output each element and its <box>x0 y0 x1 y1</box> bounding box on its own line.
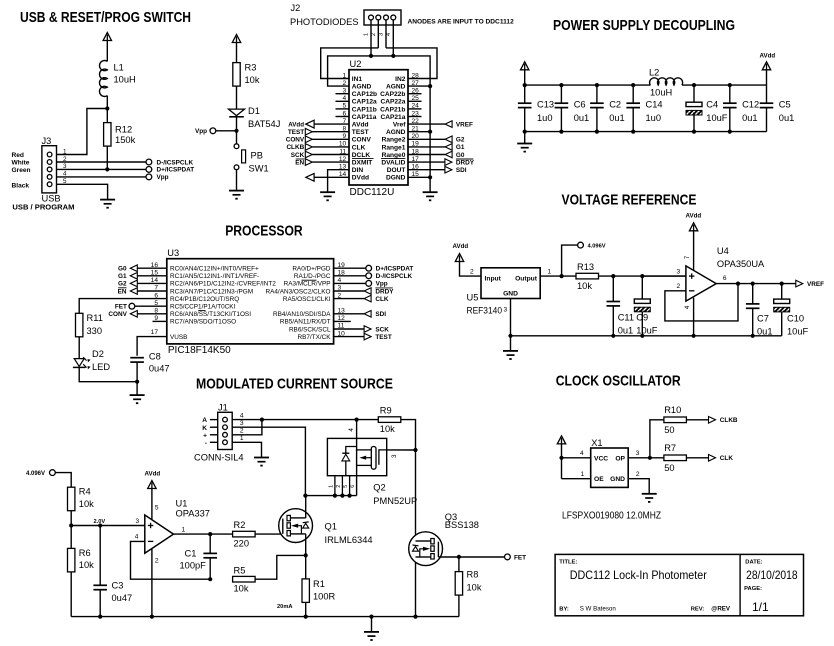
svg-text:USB & RESET/PROG SWITCH: USB & RESET/PROG SWITCH <box>20 9 191 26</box>
wire Q3 gate to FET terminal <box>438 556 504 558</box>
resistor R6 <box>68 548 75 572</box>
wire RA3 <box>334 282 366 284</box>
wire <box>524 132 526 144</box>
wire D2 to junction <box>79 367 137 381</box>
wire Range2 <box>408 138 445 140</box>
transistor Q2 PMN52UP <box>327 420 415 496</box>
wire VUSB to C8 <box>137 337 167 356</box>
svg-text:2: 2 <box>343 80 347 87</box>
svg-text:BSS138: BSS138 <box>445 520 479 530</box>
svg-text:17: 17 <box>151 329 159 336</box>
U3 overline SS <box>198 310 205 312</box>
svg-text:SCK: SCK <box>291 152 305 159</box>
input flag CONV <box>312 138 349 140</box>
svg-text:OPA337: OPA337 <box>176 508 210 518</box>
transistor Q3 BSS138 <box>409 532 443 566</box>
U2 overline DXMIT <box>352 158 374 160</box>
svg-text:50: 50 <box>664 463 674 473</box>
svg-text:R5: R5 <box>234 565 246 575</box>
flag TEST <box>364 333 371 340</box>
IC X1 LFSPXO019080 <box>591 448 629 487</box>
U2 left cap stubs <box>336 94 350 117</box>
svg-text:28: 28 <box>412 72 420 79</box>
input flag EN <box>312 161 349 163</box>
wire <box>55 473 71 488</box>
terminal D+/ICSPDAT <box>146 167 152 173</box>
svg-text:Range1: Range1 <box>382 144 406 151</box>
U3 overline MCLR <box>302 279 317 281</box>
svg-text:FET: FET <box>115 304 127 311</box>
svg-text:AVdd: AVdd <box>352 122 369 129</box>
junction <box>304 553 308 557</box>
ground <box>254 458 269 467</box>
capacitor C2 <box>596 85 598 103</box>
junction <box>611 334 615 338</box>
svg-text:D-/ICSPCLK: D-/ICSPCLK <box>376 273 413 280</box>
wire R6 to rail <box>70 572 72 617</box>
wire U4 pin4 <box>693 298 695 336</box>
svg-text:RC1/AN5/C12IN1-/INT1/VREF-: RC1/AN5/C12IN1-/INT1/VREF- <box>170 273 259 280</box>
svg-text:CAP12a: CAP12a <box>352 99 377 106</box>
svg-text:POWER SUPPLY DECOUPLING: POWER SUPPLY DECOUPLING <box>553 17 735 34</box>
capacitor C12 <box>729 85 731 103</box>
capacitor C10 (polarized) <box>781 284 783 300</box>
junction <box>105 167 109 171</box>
supply flag DVdd pin14 <box>314 176 349 178</box>
svg-text:7: 7 <box>684 255 691 259</box>
svg-text:PHOTODIODES: PHOTODIODES <box>290 17 359 27</box>
connector J2 <box>364 10 401 25</box>
connector J3 <box>42 146 57 193</box>
svg-text:1u0: 1u0 <box>646 113 662 123</box>
svg-text:REF3140: REF3140 <box>467 305 503 315</box>
capacitor C11 <box>612 276 614 301</box>
svg-text:R12: R12 <box>115 124 132 135</box>
junction <box>560 274 564 278</box>
svg-text:3: 3 <box>677 268 681 275</box>
flag G1 <box>445 144 452 151</box>
junction <box>333 494 337 498</box>
svg-text:TEST: TEST <box>352 129 369 136</box>
U3 pin labels right <box>266 266 332 341</box>
svg-text:10k: 10k <box>79 499 94 509</box>
svg-text:R11: R11 <box>87 313 103 323</box>
junction <box>611 274 615 278</box>
svg-text:AGND: AGND <box>386 129 406 136</box>
svg-text:28/10/2018: 28/10/2018 <box>746 568 798 582</box>
svg-text:Vpp: Vpp <box>157 174 169 181</box>
svg-text:-: - <box>205 440 207 447</box>
junction <box>135 380 139 384</box>
svg-text:C14: C14 <box>646 99 663 109</box>
junction <box>69 523 73 527</box>
svg-text:1: 1 <box>343 72 347 79</box>
junction <box>369 54 373 58</box>
wire AGND loop <box>328 56 431 86</box>
wire to R10 <box>650 420 664 458</box>
svg-text:4.096V: 4.096V <box>26 471 45 477</box>
svg-text:RA1/D-/PGC: RA1/D-/PGC <box>294 273 331 280</box>
capacitor C14 <box>632 85 634 103</box>
svg-text:U3: U3 <box>167 248 179 258</box>
wire +input pin3 <box>642 275 686 277</box>
svg-text:G1: G1 <box>456 144 465 151</box>
svg-text:AVdd: AVdd <box>453 243 469 250</box>
connector J1 <box>218 412 233 449</box>
svg-text:6: 6 <box>350 485 356 488</box>
svg-text:BAT54J: BAT54J <box>248 119 280 129</box>
svg-text:R1: R1 <box>313 579 325 589</box>
ground <box>320 192 335 201</box>
svg-text:VREF: VREF <box>807 281 824 288</box>
terminal FET <box>135 305 167 307</box>
capacitor C9 (polarized) <box>641 276 643 299</box>
flag G2 <box>138 282 167 284</box>
wire DOUT <box>408 169 445 171</box>
svg-text:CAP22b: CAP22b <box>380 91 405 98</box>
capacitor C3 <box>99 526 101 586</box>
svg-text:R2: R2 <box>234 520 246 530</box>
svg-text:10k: 10k <box>234 584 249 594</box>
junction <box>457 555 461 559</box>
svg-text:3: 3 <box>379 33 385 36</box>
U3 pin labels left <box>170 266 276 342</box>
svg-text:TEST: TEST <box>375 334 391 341</box>
svg-text:2: 2 <box>636 471 640 478</box>
wire R11 to LED D2 <box>78 337 80 359</box>
svg-text:Q2: Q2 <box>373 483 385 493</box>
svg-text:REV:: REV: <box>691 607 705 613</box>
ground <box>100 200 115 209</box>
svg-text:1u0: 1u0 <box>537 113 553 123</box>
inductor L1 <box>99 61 107 97</box>
flag G0 <box>138 267 167 269</box>
U2 pin labels left <box>352 76 377 182</box>
svg-text:C13: C13 <box>537 99 554 109</box>
svg-text:1: 1 <box>182 526 186 533</box>
svg-text:DDC112U: DDC112U <box>350 187 395 198</box>
svg-text:DVALID: DVALID <box>381 160 405 167</box>
wire output pin1 <box>174 533 233 535</box>
wire AGND pin21 <box>408 131 430 133</box>
flag CLK <box>709 455 716 462</box>
wire <box>70 511 72 549</box>
svg-text:IN2: IN2 <box>395 76 406 83</box>
svg-text:PMN52UP: PMN52UP <box>373 496 417 506</box>
wire RB6 <box>334 328 365 330</box>
junction <box>559 456 563 460</box>
svg-text:SCK: SCK <box>375 326 389 333</box>
svg-text:RC4/P1B/C12OUT/SRQ: RC4/P1B/C12OUT/SRQ <box>170 296 239 303</box>
U2 pin numbers left <box>339 72 347 178</box>
wire X1 GND pin2 <box>628 479 649 494</box>
wire <box>236 117 238 144</box>
wire R2 to Q1 gate <box>255 533 283 535</box>
resistor R9 <box>378 417 401 423</box>
wire J1 pin2 <box>232 420 262 435</box>
svg-text:10uH: 10uH <box>650 87 672 97</box>
title block <box>555 554 803 615</box>
svg-text:G2: G2 <box>118 281 127 288</box>
wire X1 OP pin3 <box>628 457 664 459</box>
svg-text:S W Bateson: S W Bateson <box>580 606 617 613</box>
U2 pin numbers right <box>412 72 420 178</box>
junction <box>150 615 154 619</box>
svg-text:D-/ICSPCLK: D-/ICSPCLK <box>157 159 194 166</box>
svg-text:C8: C8 <box>149 352 161 362</box>
svg-text:OP: OP <box>615 455 625 462</box>
svg-text:MODULATED CURRENT SOURCE: MODULATED CURRENT SOURCE <box>196 376 393 393</box>
op-amp U4 OPA350UA <box>686 266 716 301</box>
capacitor C4 (polarized) <box>693 85 695 102</box>
switch SW1 <box>234 144 239 149</box>
diode D2 LED <box>74 359 84 367</box>
wire Range1 <box>408 146 445 148</box>
resistor R10 <box>664 417 687 423</box>
svg-text:PIC18F14K50: PIC18F14K50 <box>168 345 231 356</box>
wire U1 pin5 <box>151 489 153 520</box>
U3 pin numbers right <box>338 262 346 337</box>
svg-text:R4: R4 <box>79 487 91 497</box>
capacitor C13 <box>524 85 526 103</box>
svg-text:4: 4 <box>135 534 139 541</box>
svg-text:CLOCK OSCILLATOR: CLOCK OSCILLATOR <box>556 372 681 389</box>
svg-text:BY:: BY: <box>559 607 569 613</box>
wire Range0 <box>408 154 445 156</box>
capacitor C5 <box>766 85 768 103</box>
svg-text:EN: EN <box>118 288 127 295</box>
svg-text:3: 3 <box>391 454 398 458</box>
IC U2 DDC112U <box>349 70 408 185</box>
svg-text:Vref: Vref <box>393 122 406 129</box>
svg-text:C12: C12 <box>742 99 759 109</box>
svg-text:GND: GND <box>610 476 625 483</box>
svg-text:GND: GND <box>503 291 518 298</box>
junction <box>234 129 238 133</box>
wire <box>57 168 146 170</box>
wire Q1 drain <box>305 496 307 518</box>
svg-text:G0: G0 <box>118 266 127 273</box>
svg-text:5: 5 <box>343 485 349 488</box>
svg-text:CAP21b: CAP21b <box>380 106 405 113</box>
svg-text:USB / PROGRAM: USB / PROGRAM <box>12 203 74 212</box>
terminal 4.096V <box>50 470 56 476</box>
svg-text:R6: R6 <box>79 548 91 558</box>
svg-text:PAGE:: PAGE: <box>744 586 762 592</box>
wire RA5 <box>334 298 365 300</box>
wire source to R5 <box>255 555 306 579</box>
wire <box>136 382 138 395</box>
wire <box>57 184 108 199</box>
svg-text:Input: Input <box>485 276 502 283</box>
svg-text:C11: C11 <box>618 313 634 323</box>
junction <box>304 615 308 619</box>
svg-text:0u47: 0u47 <box>112 593 133 603</box>
wire <box>460 262 482 277</box>
wire <box>561 444 563 479</box>
wire Vref pin22 <box>408 123 445 125</box>
svg-text:Red: Red <box>12 152 24 159</box>
junction <box>648 456 652 460</box>
terminal Vpp <box>210 128 216 134</box>
svg-text:DDC112 Lock-In Photometer: DDC112 Lock-In Photometer <box>570 568 707 582</box>
svg-text:VUSB: VUSB <box>170 334 187 341</box>
resistor R13 <box>576 273 599 279</box>
svg-text:CLK: CLK <box>375 296 389 303</box>
capacitor C8 <box>130 358 144 362</box>
svg-text:CLK: CLK <box>720 455 734 462</box>
capacitor C1 <box>209 534 211 553</box>
wire <box>371 617 373 632</box>
wire top rail right <box>682 84 766 86</box>
junction <box>413 615 417 619</box>
junction <box>348 494 352 498</box>
wire <box>599 275 686 277</box>
svg-text:10k: 10k <box>467 582 482 592</box>
svg-text:Green: Green <box>12 167 31 174</box>
svg-text:DIN: DIN <box>352 167 364 174</box>
resistor R2 <box>233 531 256 537</box>
svg-text:Vpp: Vpp <box>195 128 207 135</box>
svg-text:L2: L2 <box>649 68 659 78</box>
wire top rail <box>525 84 651 86</box>
wire J1 pin3 <box>232 427 305 495</box>
svg-text:C9: C9 <box>636 313 648 323</box>
junction <box>692 334 696 338</box>
svg-text:1: 1 <box>363 33 369 36</box>
svg-text:2: 2 <box>155 558 159 565</box>
svg-text:100pF: 100pF <box>180 560 207 570</box>
junction <box>751 334 755 338</box>
svg-text:DOUT: DOUT <box>387 167 406 174</box>
svg-text:CLKB: CLKB <box>286 144 304 151</box>
flag CLKB <box>709 417 716 424</box>
svg-text:ANODES ARE INPUT TO DDC1112: ANODES ARE INPUT TO DDC1112 <box>408 19 515 26</box>
IC U5 REF3140 <box>481 268 540 299</box>
resistor R8 <box>458 557 460 572</box>
wire Q1 source <box>305 534 307 579</box>
junction <box>640 274 644 278</box>
flag G0 <box>445 151 452 158</box>
svg-text:D1: D1 <box>248 106 260 116</box>
svg-text:20mA: 20mA <box>277 604 293 610</box>
wire U5 GND to rail <box>510 299 512 336</box>
svg-text:U5: U5 <box>467 292 479 302</box>
terminal Vpp <box>366 281 372 287</box>
wire R8 to rail <box>458 595 460 617</box>
IC U3 PIC18F14K50 <box>167 259 334 344</box>
svg-text:VCC: VCC <box>594 455 608 462</box>
junction <box>413 448 417 452</box>
svg-text:AVdd: AVdd <box>760 53 776 60</box>
svg-text:0u1: 0u1 <box>574 113 590 123</box>
svg-text:+: + <box>203 432 207 439</box>
junction <box>369 615 373 619</box>
svg-text:RB4/AN10/SDI/SDA: RB4/AN10/SDI/SDA <box>273 311 331 318</box>
svg-text:A: A <box>202 417 207 424</box>
svg-text:RC7/AN9/SDO/T1OSO: RC7/AN9/SDO/T1OSO <box>170 319 236 326</box>
capacitor C6 <box>560 85 562 103</box>
transistor Q1 IRLML6344 <box>279 509 313 543</box>
svg-text:3: 3 <box>240 420 244 427</box>
svg-text:Output: Output <box>515 276 538 283</box>
flag G1 <box>138 275 167 277</box>
wire Q2 source pins to Q1 drain <box>305 495 356 497</box>
ground <box>423 192 438 201</box>
resistor R12 <box>104 123 111 147</box>
junction <box>751 282 755 286</box>
inductor L2 <box>650 78 683 85</box>
wire <box>524 70 526 85</box>
svg-text:RC3/AN7/P1C/C12IN3-/PGM: RC3/AN7/P1C/C12IN3-/PGM <box>170 288 253 295</box>
wire -input feedback pin2 <box>665 284 738 321</box>
svg-text:0u1: 0u1 <box>618 326 634 336</box>
svg-text:Range2: Range2 <box>382 137 406 144</box>
wire -input pin4 <box>131 541 211 579</box>
svg-text:2: 2 <box>470 268 474 275</box>
svg-text:0u1: 0u1 <box>742 113 758 123</box>
svg-text:DGND: DGND <box>386 175 406 182</box>
svg-text:330: 330 <box>87 326 103 336</box>
resistor R1 <box>302 579 309 603</box>
wire U1 pin2 <box>151 549 153 617</box>
svg-text:RC0/AN4/C12IN+/INT0/VREF+: RC0/AN4/C12IN+/INT0/VREF+ <box>170 266 259 273</box>
wire RA1 <box>334 275 366 277</box>
svg-text:10uF: 10uF <box>636 326 658 336</box>
svg-text:IRLML6344: IRLML6344 <box>325 535 373 545</box>
svg-text:0u47: 0u47 <box>149 364 170 374</box>
svg-text:@REV: @REV <box>711 606 731 613</box>
junction <box>391 54 395 58</box>
svg-text:4: 4 <box>684 305 691 309</box>
svg-text:RC2/AN6/P1D/C12IN2-/CVREF/INT2: RC2/AN6/P1D/C12IN2-/CVREF/INT2 <box>170 281 276 288</box>
wire U4 pin7 <box>693 231 695 271</box>
svg-text:LED: LED <box>92 362 110 372</box>
terminal D+/ICSPDAT <box>366 265 372 271</box>
svg-text:FET: FET <box>514 554 526 561</box>
junction <box>780 282 784 286</box>
wire R9 to vertical <box>401 420 416 617</box>
wire <box>236 43 238 63</box>
svg-text:SDI: SDI <box>375 311 386 318</box>
svg-text:3: 3 <box>636 450 640 457</box>
wire +input <box>71 525 145 527</box>
svg-text:R9: R9 <box>380 406 392 416</box>
junction <box>428 175 432 179</box>
junction <box>303 494 307 498</box>
svg-text:RB5/AN11/RX/DT: RB5/AN11/RX/DT <box>280 319 331 326</box>
wire RB4 <box>334 313 365 315</box>
svg-text:K: K <box>202 425 207 432</box>
junction <box>736 282 740 286</box>
svg-text:Vpp: Vpp <box>376 281 388 288</box>
wire <box>57 176 146 178</box>
svg-text:CONV: CONV <box>286 137 305 144</box>
svg-text:White: White <box>12 160 30 167</box>
svg-text:10k: 10k <box>380 424 395 434</box>
wire <box>106 146 108 169</box>
svg-text:Q1: Q1 <box>325 521 337 531</box>
wire <box>216 130 237 132</box>
svg-text:1: 1 <box>328 485 334 488</box>
flag SDI <box>364 311 371 318</box>
wire DGND pin15 <box>408 176 430 178</box>
U2 overline DVALID <box>381 158 405 160</box>
flag EN <box>138 290 167 292</box>
svg-text:AGND: AGND <box>386 84 406 91</box>
junction <box>340 494 344 498</box>
svg-text:CONV: CONV <box>352 137 372 144</box>
